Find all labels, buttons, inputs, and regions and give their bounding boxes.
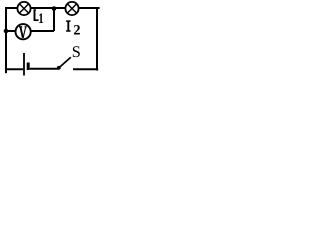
wire middle vertical bbox=[53, 9, 55, 32]
battery short plate bbox=[27, 63, 30, 71]
wire bottom middle segment bbox=[30, 68, 59, 70]
wire voltmeter row bbox=[6, 30, 54, 32]
label L1 bbox=[34, 9, 39, 21]
svg-text:S: S bbox=[72, 43, 81, 61]
voltmeter V bbox=[16, 24, 31, 39]
wire bottom left segment bbox=[5, 68, 23, 70]
wire top horizontal bbox=[5, 7, 100, 9]
lamp L1 bbox=[17, 2, 30, 15]
node junction dot on left wire bbox=[4, 29, 9, 34]
label I2 bbox=[66, 21, 71, 32]
node junction dot on top wire bbox=[52, 6, 57, 11]
switch S lever bbox=[59, 57, 71, 68]
svg-text:1: 1 bbox=[38, 11, 43, 27]
battery long plate bbox=[23, 53, 25, 76]
wire right vertical bbox=[96, 7, 98, 71]
lamp L2 bbox=[65, 2, 78, 15]
wire left vertical bbox=[5, 7, 7, 73]
wire bottom right segment bbox=[73, 68, 98, 70]
svg-text:2: 2 bbox=[73, 23, 80, 39]
switch S pivot contact bbox=[57, 66, 61, 70]
